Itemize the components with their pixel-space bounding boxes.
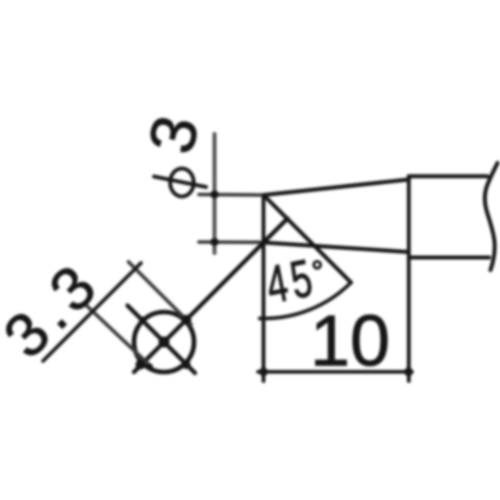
dot at circle SW quadrant — [136, 360, 146, 370]
angle dimension arc 45deg — [260, 283, 351, 319]
crosshair centerline NW-SE — [128, 306, 196, 374]
svg-text:10: 10 — [310, 302, 390, 382]
extension line E1 (NE tangent) — [129, 262, 192, 325]
extension line E2 (SW tangent) — [87, 306, 151, 367]
label phi symbol bar — [154, 177, 206, 188]
cylinder top edge — [409, 174, 487, 178]
cylinder bottom edge — [409, 256, 489, 260]
dot terminator 10 right — [404, 367, 413, 376]
dimension line 3.3 — [43, 263, 141, 361]
dot terminator 10 left — [259, 367, 268, 376]
cone top edge — [264, 180, 409, 196]
cylinder left edge + extension down to 10-dim — [407, 176, 411, 381]
extension line bottom (cone bottom corner to dim line) — [199, 240, 264, 244]
dimension line 10 horizontal — [258, 370, 412, 374]
dot at circle NW crossing — [139, 317, 146, 324]
bevel edge diagonal 45deg — [264, 196, 351, 283]
extension line top (cone top corner to dim line) — [199, 193, 264, 197]
bevel face vertical line + extension down to 10-dim — [262, 195, 266, 381]
svg-text:3.3: 3.3 — [0, 248, 113, 371]
dot at circle NE quadrant — [181, 315, 191, 325]
dot at circle SE crossing — [182, 360, 191, 369]
break line squiggle — [485, 163, 498, 270]
degree symbol of 45 — [314, 261, 321, 268]
projection centerline L2 to auxiliary view — [134, 219, 288, 373]
svg-text:3: 3 — [135, 110, 213, 160]
dot terminator phi3 top — [210, 190, 218, 198]
dot terminator phi3 bottom — [210, 238, 218, 246]
label phi symbol circle — [170, 169, 194, 197]
auxiliary face circle — [134, 312, 194, 372]
dot at circle center — [159, 337, 170, 348]
cone bottom edge — [264, 243, 409, 253]
dot at E2 end — [146, 363, 153, 370]
dimension line phi3 vertical — [213, 134, 217, 253]
